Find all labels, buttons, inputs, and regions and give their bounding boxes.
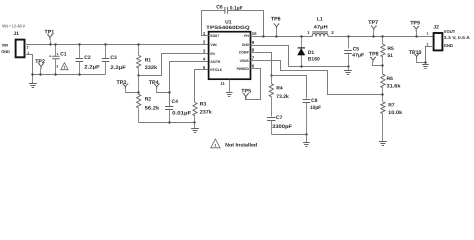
wire VIN rail from J1 pin to U1 VIN pin — [25, 44, 209, 46]
capacitor C2 2.2uF — [76, 43, 100, 75]
svg-text:L1: L1 — [317, 17, 323, 23]
svg-text:GND: GND — [242, 43, 249, 47]
svg-text:GND: GND — [444, 43, 453, 48]
U1 pin 5 RT/CLK — [203, 65, 223, 72]
connector J1 — [1, 31, 29, 58]
resistor R1 332k — [137, 43, 158, 75]
resistor R7 10.0k — [381, 102, 403, 142]
svg-text:2: 2 — [56, 64, 58, 68]
wire U1 RT/CLK pin to R3 — [195, 70, 209, 103]
wire J2 GND pin to ground — [426, 47, 434, 65]
svg-text:TP8: TP8 — [369, 52, 379, 58]
wire input ground rail — [33, 74, 106, 76]
svg-text:C3: C3 — [110, 55, 117, 61]
ground symbol below C5 — [348, 67, 350, 71]
U1 pin 9 GND — [242, 40, 255, 47]
test point TP8 — [369, 52, 384, 67]
svg-text:J2: J2 — [433, 24, 439, 30]
svg-text:RT/CLK: RT/CLK — [210, 68, 222, 72]
wire U1 VSNS pin 7 to feedback divider — [251, 61, 383, 95]
svg-text:3.3 V, 0.5 A: 3.3 V, 0.5 A — [444, 35, 470, 40]
svg-text:B160: B160 — [308, 56, 320, 62]
ground symbol below C8 — [306, 135, 308, 143]
ground symbol below R3 — [194, 123, 196, 129]
diode D1 B160 — [298, 35, 320, 66]
wire J1 GND pin down to ground — [25, 55, 33, 75]
wire lower ground rail — [139, 122, 195, 124]
wire PH rail from U1 pin 10 — [251, 36, 313, 38]
U1 pin 1 BOOT — [203, 31, 220, 38]
legend not installed — [211, 139, 257, 149]
svg-text:GND: GND — [1, 49, 10, 54]
wire U1 SS/TR pin to C4 — [170, 62, 209, 107]
test point TP6 — [271, 16, 281, 37]
test point TP2 — [35, 59, 45, 76]
svg-text:10: 10 — [252, 31, 257, 36]
wire VOUT rail from L1 to J2 — [329, 36, 434, 38]
svg-text:U1: U1 — [225, 20, 232, 26]
svg-text:3300pF: 3300pF — [272, 124, 292, 130]
test point TP3 — [117, 80, 140, 94]
svg-text:332k: 332k — [145, 65, 158, 71]
wire C7/C8 ground join — [272, 134, 307, 136]
inductor L1 47uH — [307, 17, 334, 37]
test point TP9 — [410, 20, 420, 37]
U1 pin 3 EN — [203, 49, 215, 56]
connector J2 — [427, 24, 470, 50]
svg-text:VIN: VIN — [210, 43, 217, 47]
svg-text:D1: D1 — [308, 50, 315, 56]
svg-text:1: 1 — [427, 31, 429, 35]
svg-text:VIN = 12–60 V: VIN = 12–60 V — [2, 23, 25, 28]
svg-text:R1: R1 — [145, 57, 152, 63]
test point TP7 — [368, 20, 378, 38]
svg-text:C6: C6 — [216, 5, 223, 11]
svg-text:TP7: TP7 — [368, 20, 378, 26]
capacitor C5 47uF output — [344, 35, 364, 67]
svg-text:SS/TR: SS/TR — [210, 60, 220, 64]
svg-text:TP4: TP4 — [149, 80, 159, 86]
svg-text:56.2k: 56.2k — [145, 106, 160, 112]
svg-text:1: 1 — [63, 66, 65, 70]
svg-text:R3: R3 — [200, 102, 207, 108]
resistor R5 51 — [381, 35, 394, 74]
svg-text:31.6k: 31.6k — [387, 83, 401, 89]
svg-text:C4: C4 — [172, 99, 179, 105]
svg-text:R2: R2 — [145, 97, 152, 103]
U1 pin 4 SS/TR — [203, 57, 221, 64]
svg-text:11: 11 — [220, 81, 225, 86]
wire output ground line — [289, 66, 349, 68]
svg-text:C2: C2 — [84, 55, 91, 61]
test point TP4 — [149, 80, 171, 94]
ground symbol below R7 — [379, 142, 387, 146]
test point TP10 — [409, 50, 427, 64]
svg-text:Not Installed: Not Installed — [225, 143, 257, 149]
svg-text:R5: R5 — [387, 46, 394, 52]
ground symbol below J2 GND — [422, 65, 429, 69]
U1 pad 11 to ground — [220, 80, 232, 97]
svg-text:EN: EN — [210, 52, 215, 56]
capacitor C1 (not installed, polarized) — [49, 43, 68, 75]
svg-text:2.2µF: 2.2µF — [84, 65, 100, 71]
wire EN node from R1/R2 junction to U1 EN pin — [139, 54, 209, 76]
svg-text:TP5: TP5 — [241, 89, 251, 95]
wire COMP branch to C8 — [272, 76, 307, 99]
svg-text:0.01µF: 0.01µF — [172, 111, 191, 117]
ground symbol at input — [32, 75, 34, 84]
wire U1 PWRGD pin 6 to TP5 — [246, 69, 261, 100]
resistor R3 237k — [193, 102, 212, 124]
svg-text:1: 1 — [57, 52, 59, 56]
svg-text:TPS54060DGQ: TPS54060DGQ — [206, 25, 250, 31]
svg-text:10.0k: 10.0k — [388, 110, 402, 116]
test point TP5 — [241, 89, 251, 99]
svg-text:TP6: TP6 — [271, 16, 281, 22]
U1 pin 10 PH — [244, 31, 257, 38]
svg-text:2: 2 — [427, 42, 429, 46]
capacitor C7 3300pF — [267, 97, 292, 135]
wire U1 COMP pin 8 to compensation network — [251, 53, 272, 76]
svg-text:C1: C1 — [60, 52, 67, 58]
svg-text:2: 2 — [27, 46, 29, 50]
svg-text:47µF: 47µF — [352, 53, 364, 59]
IC U1 TPS54060DGQ — [206, 20, 250, 79]
svg-text:PWRGD: PWRGD — [237, 67, 250, 71]
resistor R4 73.2k — [269, 74, 289, 100]
svg-text:1: 1 — [214, 144, 216, 148]
U1 pin 2 VIN — [203, 40, 217, 47]
svg-text:73.2k: 73.2k — [276, 94, 289, 100]
svg-text:R4: R4 — [276, 85, 283, 91]
svg-text:47µH: 47µH — [314, 24, 328, 30]
svg-text:C7: C7 — [276, 115, 283, 121]
svg-text:VSNS: VSNS — [240, 59, 250, 63]
resistor R6 31.6k — [381, 74, 401, 101]
capacitor C4 0.01uF — [165, 99, 191, 124]
svg-text:10pF: 10pF — [310, 105, 321, 111]
svg-text:TP9: TP9 — [410, 20, 420, 26]
U1 pin 8 COMP — [239, 47, 255, 54]
svg-text:PH: PH — [244, 34, 249, 38]
U1 pin 6 PWRGD — [237, 64, 255, 71]
svg-text:COMP: COMP — [239, 51, 250, 55]
U1 pin 7 VSNS — [240, 56, 255, 63]
svg-text:C8: C8 — [311, 98, 318, 104]
svg-text:51: 51 — [387, 53, 393, 59]
svg-text:237k: 237k — [200, 110, 212, 116]
svg-text:BOOT: BOOT — [210, 34, 219, 38]
svg-text:VOUT: VOUT — [444, 29, 456, 34]
capacitor C3 2.2uF — [102, 43, 126, 74]
svg-text:2.2µF: 2.2µF — [110, 65, 126, 71]
wire U1 GND pin 9 to output ground line — [251, 46, 289, 67]
svg-text:R6: R6 — [387, 76, 394, 82]
svg-text:J1: J1 — [13, 31, 19, 37]
capacitor C6 0.1uF boot — [202, 5, 264, 37]
capacitor C8 10pF — [303, 98, 321, 135]
svg-text:TP3: TP3 — [117, 80, 127, 86]
resistor R2 56.2k — [137, 94, 160, 122]
wire R1/R2 junction column — [138, 76, 140, 95]
test point TP1 — [45, 30, 55, 46]
svg-text:R7: R7 — [388, 102, 395, 108]
svg-text:VIN: VIN — [2, 42, 9, 47]
